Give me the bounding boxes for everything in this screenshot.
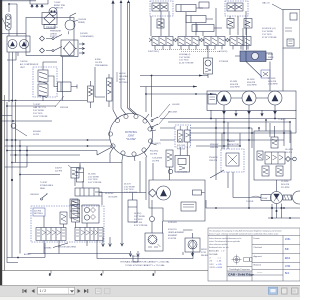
mid dashed solenoid box <box>175 125 191 147</box>
top-mid dashed valve box 2 <box>225 1 248 16</box>
svg-text:PORTS: PORTS <box>50 36 58 38</box>
fan pump valve <box>226 153 239 166</box>
arrows into top box <box>31 5 43 9</box>
svg-text:O/E/J0/50: O/E/J0/50 <box>30 194 40 196</box>
small circle component <box>168 169 172 173</box>
svg-text:HYDRAULIC RESERVOIR CAPACITY =: HYDRAULIC RESERVOIR CAPACITY = 8.80 GAL <box>120 261 170 264</box>
svg-text:MJ-6000: MJ-6000 <box>33 131 42 133</box>
svg-text:CAB - Solid Edge: CAB - Solid Edge <box>228 273 254 277</box>
mid motor box <box>149 180 205 221</box>
svg-text:MXWB5: MXWB5 <box>44 248 52 250</box>
svg-text:This drawing is the property o: This drawing is the property of urto-Bal… <box>209 229 282 232</box>
aux cartridge right <box>227 19 234 29</box>
svg-text:DRIER): DRIER) <box>78 22 85 24</box>
svg-text:2.50" BORE: 2.50" BORE <box>262 31 273 33</box>
precharge wire <box>95 67 105 97</box>
joint radial stubs <box>110 108 157 161</box>
tolerance text col <box>209 238 241 269</box>
LJ switches <box>152 117 158 127</box>
svg-text:ROTATING: ROTATING <box>125 131 137 134</box>
check port switches <box>46 35 62 51</box>
frame tick 3 <box>154 271 156 274</box>
svg-text:5 PSI: 5 PSI <box>201 252 206 254</box>
svg-text:FYLC/98: FYLC/98 <box>177 145 186 147</box>
grapple cylinder <box>240 51 266 62</box>
svg-text:5/G/L3/5R: 5/G/L3/5R <box>168 112 178 114</box>
compressor pump 1 <box>8 40 17 49</box>
joint outlet verticals <box>110 153 146 246</box>
page number input <box>38 287 75 294</box>
svg-text:Drawn: Drawn <box>254 237 261 240</box>
svg-text:5/LX/5Q: 5/LX/5Q <box>134 213 142 215</box>
wires mid motor <box>153 147 224 233</box>
svg-text:2.50" BORE: 2.50" BORE <box>33 110 44 112</box>
svg-text:100 PSI: 100 PSI <box>95 62 103 64</box>
fan check diamond <box>286 157 291 162</box>
small block <box>199 2 209 8</box>
fan lower cartridge 2 <box>276 166 283 176</box>
check port diamond 2 <box>40 48 45 53</box>
svg-text:FY/RE/DUBLE: FY/RE/DUBLE <box>40 185 54 187</box>
right column labels <box>254 237 263 275</box>
pump 3 <box>268 91 282 105</box>
right-mid verticals <box>211 110 296 208</box>
svg-text:FOU/CS1: FOU/CS1 <box>168 229 178 231</box>
svg-text:CONDENSER): CONDENSER) <box>80 36 94 38</box>
svg-text:2V8s: 2V8s <box>285 239 291 241</box>
svg-text:2.87" BORE: 2.87" BORE <box>134 216 145 218</box>
svg-text:1.50" BORE: 1.50" BORE <box>88 176 99 178</box>
svg-text:Checked: Checked <box>254 247 263 249</box>
svg-text:FYLC/98: FYLC/98 <box>177 149 186 151</box>
mid diamond <box>149 189 157 197</box>
svg-text:3450 PSI: 3450 PSI <box>268 81 277 83</box>
left bus verticals <box>7 102 27 258</box>
wire compressor drain <box>7 52 16 60</box>
svg-text:SETTING: SETTING <box>119 82 128 84</box>
svg-text:200 PSI: 200 PSI <box>55 171 63 173</box>
svg-text:EDt4: EDt4 <box>285 257 291 260</box>
svg-text:HJ,009A(+4): HJ,009A(+4) <box>179 53 191 56</box>
broom valve block <box>82 205 99 223</box>
reel motor stack <box>72 200 80 222</box>
svg-text:CAB TILT CYL: CAB TILT CYL <box>33 106 47 109</box>
svg-text:(5J/G5N: (5J/G5N <box>80 33 88 35</box>
svg-text:1.50" ROD: 1.50" ROD <box>179 60 189 62</box>
lift cylinder 2 <box>186 16 206 23</box>
valve cells box2 <box>227 3 235 11</box>
svg-text:5R/98: 5R/98 <box>268 57 274 59</box>
pump 2 <box>242 91 256 105</box>
svg-text:1.50" BORE: 1.50" BORE <box>124 186 135 188</box>
svg-text:TOTAL SYSTEM CAPACITY = 7.10 G: TOTAL SYSTEM CAPACITY = 7.10 GAL <box>125 264 165 267</box>
svg-text:*CLOSE*: *CLOSE* <box>126 138 136 141</box>
svg-text:4300 PSI: 4300 PSI <box>247 82 256 84</box>
return filter <box>145 233 163 251</box>
svg-text:A/L/5R?: A/L/5R? <box>24 253 32 256</box>
svg-text:3450 PSI: 3450 PSI <box>281 184 290 186</box>
top-mid dashed valve box 1 <box>150 1 173 16</box>
cartridge valve 2 <box>38 84 48 96</box>
fan lower cartridge 1 <box>262 166 269 176</box>
check port diamond 1 <box>40 36 45 41</box>
svg-text:17 GPM: 17 GPM <box>268 78 276 80</box>
svg-text:O/L/G0(98): O/L/G0(98) <box>177 172 187 174</box>
svg-text:35 GPB: 35 GPB <box>230 81 238 83</box>
aux cylinder mid <box>128 200 137 222</box>
right column values blue <box>285 239 291 275</box>
mid cartridge <box>166 150 173 167</box>
svg-text:RELIEF: RELIEF <box>201 255 209 257</box>
pump unit box <box>207 91 296 111</box>
svg-text:3.0" ROD: 3.0" ROD <box>134 219 143 221</box>
gauge circle on bus <box>11 123 16 128</box>
lift cylinder 1 <box>176 5 196 12</box>
svg-text:12 L/G0(?): 12 L/G0(?) <box>151 143 161 145</box>
svg-text:UREPLACEMENT: UREPLACEMENT <box>168 231 185 234</box>
svg-text:7.000X: 7.000X <box>54 2 61 4</box>
svg-text:80 PSI: 80 PSI <box>119 79 125 81</box>
fan wheel <box>293 191 306 204</box>
svg-text:500 PSI: 500 PSI <box>150 154 158 156</box>
svg-text:37.30" STROKE: 37.30" STROKE <box>262 37 277 39</box>
svg-text:ANGULAR ± 1°: ANGULAR ± 1° <box>209 250 225 253</box>
left horizontal bus lines <box>2 101 87 122</box>
svg-text:1580 PSI: 1580 PSI <box>210 147 219 149</box>
svg-text:150 PSI: 150 PSI <box>152 161 160 163</box>
bottom/mid tiny labels <box>24 78 293 267</box>
svg-text:10.04" STROKE: 10.04" STROKE <box>33 116 48 118</box>
svg-text:+4/J,007Q: +4/J,007Q <box>218 51 228 53</box>
svg-text:AT34: AT34 <box>285 265 291 268</box>
svg-text:1.30" ROD: 1.30" ROD <box>124 189 134 191</box>
title block outline <box>208 228 300 281</box>
valve cells box1 <box>152 3 160 11</box>
fan motor <box>271 192 283 204</box>
AC compressor dashed box <box>33 67 57 97</box>
oly switch <box>42 193 47 198</box>
tank pipes <box>102 237 194 257</box>
svg-text:O/L/G0/98: O/L/G0/98 <box>108 196 118 198</box>
bus diagonal <box>97 147 112 155</box>
svg-text:A/C COMPRESSOR: A/C COMPRESSOR <box>20 63 39 66</box>
frame tick 4 <box>102 271 104 274</box>
vertical cartridge A <box>88 86 94 102</box>
rotating joint ports <box>108 114 152 156</box>
third angle projection symbol <box>232 255 253 265</box>
left page edge bar <box>0 0 2 286</box>
svg-text:8.2P 400: 8.2P 400 <box>134 222 143 224</box>
svg-text:5/R5R: 5/R5R <box>201 249 207 251</box>
reservoir tank <box>97 240 193 259</box>
right-mid bus wires <box>160 119 296 147</box>
frame left inner line <box>4 95 6 271</box>
small blue box right <box>261 70 270 78</box>
svg-text:G5 GPM: G5 GPM <box>285 149 293 151</box>
svg-text:ELEMENT: ELEMENT <box>168 235 178 237</box>
BAC03 leader <box>272 4 283 10</box>
svg-text:2160 RPM: 2160 RPM <box>247 85 257 87</box>
svg-text:200 PSI: 200 PSI <box>34 210 42 212</box>
CAB - Solid Edge title <box>227 271 251 276</box>
fan relief <box>257 151 263 160</box>
svg-text:PRESSURE B: PRESSURE B <box>46 27 58 29</box>
svg-text:200W: 200W <box>262 198 267 200</box>
fan top cartridge <box>271 137 278 148</box>
svg-text:SETTING: SETTING <box>34 213 43 215</box>
svg-text:T-LX/ST: T-LX/ST <box>33 104 41 106</box>
small cylinder 5LJ <box>77 168 84 182</box>
svg-text:Approval: Approval <box>254 255 263 258</box>
evaporator diamond box <box>61 40 78 57</box>
mid solenoid valve <box>175 156 190 173</box>
svg-text:5.2G STROKE: 5.2G STROKE <box>124 192 138 194</box>
reel relief cartridge <box>71 168 79 179</box>
svg-text:PRESSURE: PRESSURE <box>50 31 62 33</box>
junction dots mid <box>210 118 291 209</box>
svg-text:50 PSI: 50 PSI <box>33 134 39 136</box>
relief v1 <box>157 19 164 28</box>
hose reel <box>75 188 99 196</box>
svg-text:5R/J0/98: 5R/J0/98 <box>60 107 69 109</box>
right toolbar icons <box>269 287 299 294</box>
svg-text:BRIMY PRE: BRIMY PRE <box>54 5 66 7</box>
leader tilt text <box>55 96 64 107</box>
cartridge valve 1 <box>38 70 48 82</box>
tilt cylinder top <box>192 25 214 32</box>
solenoid cartridge a <box>178 130 184 142</box>
valve bank V3 <box>201 37 228 50</box>
projection symbol box lines <box>227 267 252 272</box>
fan wires <box>206 159 300 218</box>
condenser feed verticals <box>113 2 130 110</box>
pump 1 <box>217 91 231 105</box>
svg-text:1.50" ROD: 1.50" ROD <box>88 179 98 181</box>
strainer box <box>185 238 200 252</box>
small port circle <box>293 157 297 161</box>
vertical cartridge B HJ-100 <box>107 78 113 101</box>
lower-left wires <box>7 243 138 263</box>
compressor box <box>7 36 30 52</box>
relief v2 <box>244 19 252 29</box>
AC unit main box <box>26 18 74 56</box>
svg-text:PRECHARGE: PRECHARGE <box>95 64 108 67</box>
svg-text:450 PSI: 450 PSI <box>285 152 293 154</box>
fan mid valve <box>265 152 285 164</box>
svg-text:P5/G0/98: P5/G0/98 <box>209 157 218 159</box>
fan dashed pump box <box>221 149 244 172</box>
solenoid cartridge b <box>185 130 191 142</box>
mid/top tiny labels <box>125 2 277 142</box>
valve bank V1 <box>149 37 176 50</box>
svg-text:HJ-100: HJ-100 <box>119 73 126 75</box>
first page btn <box>23 289 35 293</box>
wires around tilt <box>43 62 58 87</box>
compressor relief valve <box>6 14 12 30</box>
wires right top <box>246 48 283 91</box>
svg-text:MX600W: MX600W <box>210 144 218 146</box>
svg-text:.BAC 03: .BAC 03 <box>262 2 270 5</box>
svg-text:SOLID/CE (+5): SOLID/CE (+5) <box>262 28 276 30</box>
clutch circle <box>49 8 57 16</box>
bus group lines <box>5 140 122 175</box>
MXB box <box>181 202 196 211</box>
broom wires <box>44 165 102 254</box>
wires top mid <box>151 8 246 36</box>
svg-text:T-LX/5R: T-LX/5R <box>246 201 254 203</box>
svg-text:15 GPM: 15 GPM <box>281 181 289 183</box>
svg-text:.XXXX ± .0050: .XXXX ± .0050 <box>209 267 223 269</box>
last page btn <box>84 289 87 293</box>
svg-text:5.00" STROKE: 5.00" STROKE <box>88 182 102 184</box>
svg-text:DECIMAL: DECIMAL <box>209 253 219 256</box>
svg-text:EJ556: EJ556 <box>95 59 102 61</box>
frame tick 5 <box>50 271 52 274</box>
toolbar band <box>0 286 300 297</box>
200W box <box>261 195 271 201</box>
svg-text:5/T/3/0/98: 5/T/3/0/98 <box>219 61 229 63</box>
disclaimer text <box>209 229 282 235</box>
gearbox <box>208 95 217 105</box>
prev page btn <box>32 289 35 293</box>
svg-text:Unless dimension specified dim: Unless dimension specified dimensions ar… <box>209 238 241 240</box>
next page btn <box>78 289 89 293</box>
receiver circle <box>65 20 75 30</box>
title block column dividers <box>208 236 300 282</box>
svg-text:4300 PSI: 4300 PSI <box>230 84 239 86</box>
T-LX98 stub <box>193 190 202 195</box>
svg-text:1.50" BORE: 1.50" BORE <box>179 57 190 59</box>
svg-text:5/LJ23/0: 5/LJ23/0 <box>88 174 97 176</box>
rotating joint circle <box>110 114 153 157</box>
top cut box <box>30 0 48 4</box>
svg-text:1.50" ROD: 1.50" ROD <box>262 34 272 36</box>
title block row lines right <box>252 245 300 276</box>
sheet bottom frame line <box>2 270 208 272</box>
filter top circle <box>150 217 155 222</box>
svg-text:215 RPM: 215 RPM <box>281 187 290 189</box>
svg-text:41.43" STROKE: 41.43" STROKE <box>179 62 194 64</box>
pump shafts <box>216 97 268 99</box>
reel cartridge stack <box>70 199 78 218</box>
broom relief <box>60 212 67 224</box>
svg-text:REEL: REEL <box>40 188 46 190</box>
svg-text:5/LG73: 5/LG73 <box>124 184 131 186</box>
svg-text:2160 RPM: 2160 RPM <box>268 84 278 86</box>
svg-text:44 GPM: 44 GPM <box>247 79 255 81</box>
svg-text:(T-EJ556: (T-EJ556 <box>78 19 87 21</box>
svg-text:1580 PSI: 1580 PSI <box>209 160 218 162</box>
broom spool A <box>36 228 66 241</box>
wires top-left <box>0 1 36 102</box>
svg-text:T-EJ556: T-EJ556 <box>20 61 28 63</box>
svg-text:T-LB00?: T-LB00? <box>278 119 286 121</box>
svg-text:Material: Material <box>254 264 262 267</box>
svg-text:8.28" STROKE: 8.28" STROKE <box>134 225 148 227</box>
valve bank V4 <box>227 37 251 50</box>
valve bank V2 <box>175 37 202 50</box>
svg-text:N/A0814: N/A0814 <box>227 140 236 143</box>
pump down arrows <box>223 105 277 116</box>
svg-text:CHECK: CHECK <box>50 33 58 35</box>
svg-text:5/J0/5T3/LQ: 5/J0/5T3/LQ <box>148 51 159 53</box>
receiver dryer diamond box <box>42 13 57 25</box>
broom dashed box <box>31 206 104 242</box>
svg-text:T-LX/ST: T-LX/ST <box>40 182 48 184</box>
svg-text:5/J0/ST: 5/J0/ST <box>55 168 63 170</box>
svg-text:1 / 2: 1 / 2 <box>40 289 47 293</box>
svg-text:F5LX/5Q: F5LX/5Q <box>150 151 158 153</box>
svg-text:CARTCW: CARTCW <box>54 7 63 10</box>
fan feed stubs <box>259 120 275 137</box>
fan circuit outer box <box>254 131 291 180</box>
left tiny text labels <box>20 2 129 250</box>
svg-text:5/LJ0700: 5/LJ0700 <box>105 193 114 195</box>
svg-text:FOR5023: FOR5023 <box>168 222 178 224</box>
arrowheads condenser verticals <box>111 0 129 4</box>
broom spool B <box>75 228 103 241</box>
toolbar page icons <box>96 288 111 294</box>
svg-text:L/G0/5R: L/G0/5R <box>172 104 180 106</box>
svg-text:ST-87/98: ST-87/98 <box>168 238 177 240</box>
200psi setting box <box>33 208 45 216</box>
right top box <box>283 10 300 49</box>
junction dots left <box>6 3 88 258</box>
svg-text:UNIT: UNIT <box>20 67 25 69</box>
svg-text:L/G0/5R: L/G0/5R <box>132 256 140 258</box>
svg-text:JOINT: JOINT <box>128 135 135 138</box>
mid motor circle <box>157 186 171 200</box>
svg-text:2160 RPM: 2160 RPM <box>230 87 240 89</box>
condenser arrows small <box>79 43 85 54</box>
compressor pump 2 <box>20 40 29 49</box>
svg-text:Third Angle Projection: Third Angle Projection <box>229 268 251 271</box>
svg-text:BROOM LATCHING: BROOM LATCHING <box>58 246 77 249</box>
cab tilt cylinder <box>58 82 72 92</box>
cartridge below bank <box>204 58 213 74</box>
svg-text:.XXX ± .015: .XXX ± .015 <box>209 264 223 266</box>
feed wires to pumps <box>140 76 216 118</box>
svg-text:——: —— <box>257 272 263 275</box>
svg-text:lervta. In gurt, uf deogn wd o: lervta. In gurt, uf deogn wd oonvdle oom… <box>209 232 279 235</box>
svg-text:T-5/L3/5R8: T-5/L3/5R8 <box>152 158 163 160</box>
strainer pipe <box>183 230 193 256</box>
svg-text:Bmf: Bmf <box>285 273 289 275</box>
pilot dashed links <box>155 50 221 52</box>
svg-text:2.50" ROD: 2.50" ROD <box>33 113 43 115</box>
leader HJ100 <box>116 72 118 82</box>
svg-text:FAN MOTOR: FAN MOTOR <box>227 143 239 146</box>
coupling <box>283 195 292 200</box>
